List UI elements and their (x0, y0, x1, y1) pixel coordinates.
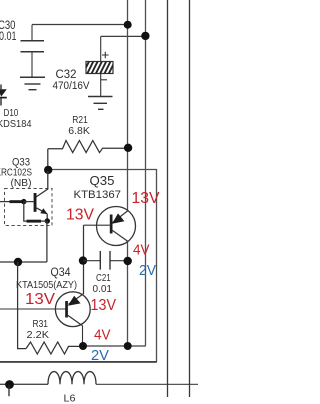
wire C32 top to bus node B (101, 35, 146, 37)
wire Q35 base down to C21 node (83, 225, 85, 294)
svg-text:2V: 2V (91, 347, 109, 364)
resistor R31 (26, 342, 83, 354)
wire 13V loop: Q33 collector node right, down right side, back along bottom (48, 170, 156, 362)
svg-text:13V: 13V (25, 291, 55, 308)
junction dot Q33 collector / R21 left (44, 166, 52, 174)
capacitor C32 (electrolytic) (82, 36, 120, 96)
svg-text:4V: 4V (94, 327, 111, 344)
vertical bus x=128 (lower segment: Q35 collector to 4V node) (127, 242, 129, 345)
junction dot C21 right / bus (124, 257, 132, 265)
vertical bus x=145.5 (top to 4V node corner) (145, 0, 147, 346)
wire Q33 emitter down to Q34 base net (46, 221, 48, 262)
capacitor C21 (83, 251, 128, 270)
transistor Q33 (digital, dashed outline) (0, 171, 52, 226)
svg-text:0.01: 0.01 (0, 31, 17, 43)
wire stub below dot (8, 385, 10, 397)
ground (C30) (20, 77, 45, 89)
junction dot R21 right / bus (124, 144, 132, 152)
svg-text:4V: 4V (133, 242, 150, 259)
wire from inductor right across buses (96, 383, 198, 385)
ground (C32) (88, 97, 113, 110)
wire down from node y=262 to R31 (18, 262, 26, 349)
junction node A (C30 wire / bus) (124, 21, 132, 29)
junction dot node y=262 (14, 258, 22, 266)
svg-text:L6: L6 (64, 393, 76, 404)
vertical bus x=167.5 (167, 0, 169, 397)
wire emitter net row y=262 (0, 261, 47, 263)
junction node B (C32 wire / bus) (141, 32, 149, 40)
wire C30 top to bus node A (32, 24, 128, 26)
junction dot 4V node / bus (124, 342, 132, 350)
wire 4V node row y=346 (83, 345, 146, 347)
resistor R21 (48, 141, 125, 167)
junction dot Q35 base / C21 left (79, 256, 87, 264)
wire bottom leg of 13V loop (0, 361, 157, 363)
svg-text:KTB1367: KTB1367 (74, 189, 122, 201)
svg-text:2V: 2V (139, 262, 156, 279)
svg-text:KDS184: KDS184 (0, 118, 32, 130)
vertical bus x=128 (upper segment: C30 node to Q35 emitter) (127, 0, 129, 211)
transistor Q34 (0, 292, 90, 346)
svg-text:KTA1505(AZY): KTA1505(AZY) (16, 279, 77, 291)
svg-text:13V: 13V (66, 207, 94, 224)
svg-text:(NB): (NB) (11, 177, 32, 189)
svg-text:2.2K: 2.2K (27, 329, 50, 341)
capacitor C30 (21, 25, 45, 77)
svg-text:470/16V: 470/16V (53, 80, 91, 92)
inductor L6 (48, 372, 96, 385)
svg-text:R21: R21 (72, 114, 88, 126)
svg-text:6.8K: 6.8K (68, 125, 90, 137)
junction dot Q34 collector / R31 (79, 342, 87, 350)
svg-text:Q34: Q34 (51, 265, 71, 279)
transistor Q35 (84, 207, 136, 246)
diode D10 (clipped at left edge) (0, 85, 7, 106)
junction dot bottom left (5, 380, 14, 389)
svg-text:13V: 13V (132, 190, 160, 207)
svg-text:Q35: Q35 (90, 173, 115, 188)
wire bottom left to inductor (0, 383, 48, 385)
svg-text:0.01: 0.01 (93, 283, 113, 295)
vertical bus x=190 (189, 0, 191, 397)
svg-text:13V: 13V (91, 297, 117, 314)
